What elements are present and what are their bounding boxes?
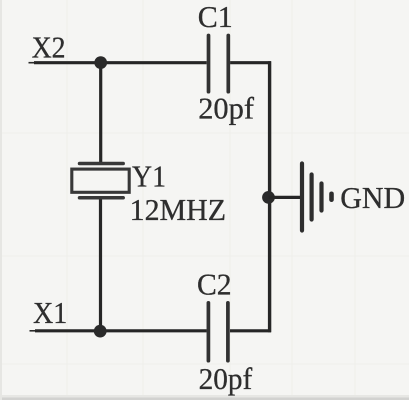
svg-text:X1: X1 (33, 295, 67, 330)
wire: stub from bus to GND symbol (269, 196, 303, 199)
wire: C1 right plate to top-right corner (230, 61, 271, 64)
ground symbol bars (302, 164, 332, 231)
capacitor C1 plates (209, 36, 229, 92)
wire: top junction down to crystal top plate (99, 63, 102, 165)
node: junction dot X1/crystal (94, 325, 107, 338)
capacitor C2 plates (208, 303, 228, 361)
svg-text:C1: C1 (198, 0, 233, 34)
svg-text:Y1: Y1 (132, 158, 166, 193)
svg-text:20pf: 20pf (199, 361, 253, 396)
node: junction dot GND tap (262, 191, 275, 204)
node: junction dot X2/crystal (94, 56, 107, 69)
crystal Y1 bottom plate (80, 196, 124, 200)
wire: X1 pin lead-in tip (30, 330, 40, 332)
wire: C2 right plate to bottom-right corner (230, 329, 271, 332)
svg-text:20pf: 20pf (198, 91, 254, 126)
wire: crystal bottom plate down to bottom junction (99, 197, 102, 332)
svg-text:12MHZ: 12MHZ (130, 192, 227, 227)
svg-text:C2: C2 (197, 267, 232, 302)
crystal Y1 body rectangle (72, 169, 129, 192)
wire: X2 pin lead-in tip (29, 62, 39, 64)
wire: X2 horizontal to C1 left plate (34, 61, 207, 64)
svg-text:X2: X2 (32, 29, 66, 64)
crystal Y1 top plate (80, 162, 124, 166)
svg-text:GND: GND (340, 180, 405, 215)
wire: X1 horizontal to C2 left plate (35, 329, 207, 332)
wire: right vertical bus (268, 61, 271, 332)
